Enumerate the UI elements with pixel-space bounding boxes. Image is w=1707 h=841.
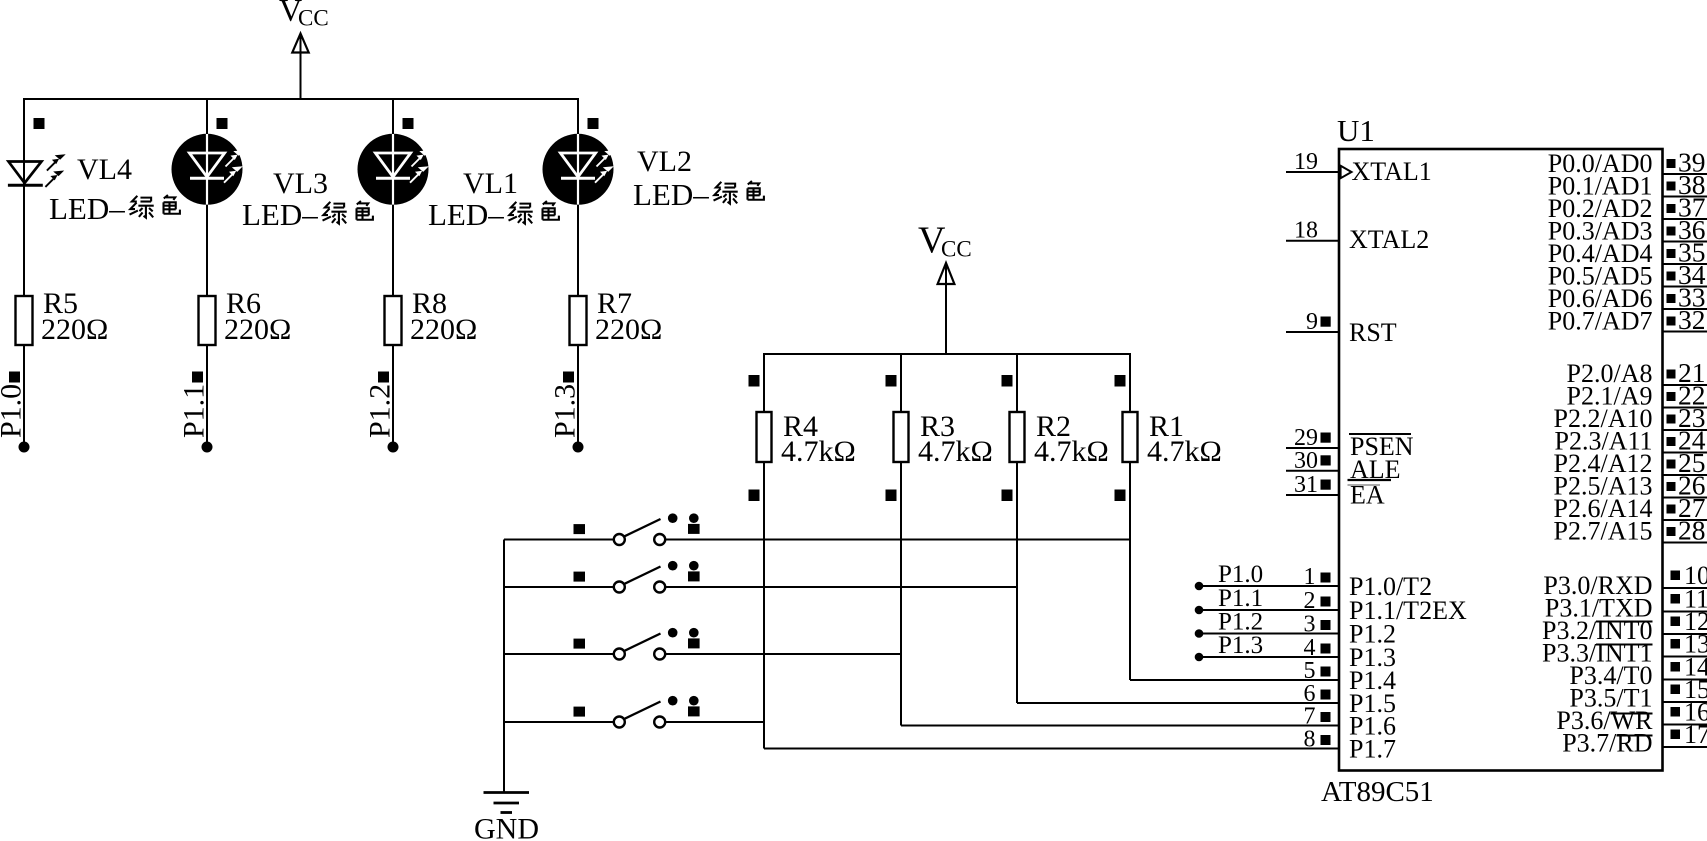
svg-text:4.7kΩ: 4.7kΩ	[918, 435, 993, 468]
svg-text:28: 28	[1678, 515, 1706, 546]
svg-text:VL4: VL4	[77, 153, 132, 186]
svg-text:30: 30	[1294, 448, 1318, 474]
svg-text:AT89C51: AT89C51	[1321, 776, 1434, 808]
svg-text:32: 32	[1678, 304, 1706, 335]
svg-text:220Ω: 220Ω	[410, 313, 477, 346]
svg-text:P3.7/RD: P3.7/RD	[1562, 729, 1652, 758]
svg-text:4.7kΩ: 4.7kΩ	[1147, 435, 1222, 468]
svg-text:CC: CC	[298, 6, 329, 31]
svg-text:17: 17	[1684, 720, 1707, 749]
svg-text:U1: U1	[1337, 113, 1375, 148]
svg-text:GND: GND	[474, 813, 539, 841]
svg-text:220Ω: 220Ω	[224, 313, 291, 346]
svg-text:P1.1: P1.1	[178, 384, 211, 438]
svg-text:220Ω: 220Ω	[595, 313, 662, 346]
svg-text:P1.0: P1.0	[0, 384, 28, 438]
svg-text:CC: CC	[941, 237, 972, 262]
svg-text:XTAL2: XTAL2	[1349, 225, 1429, 254]
svg-text:220Ω: 220Ω	[41, 313, 108, 346]
svg-text:XTAL1: XTAL1	[1352, 157, 1432, 186]
svg-text:VL1: VL1	[463, 167, 518, 200]
svg-text:P0.7/AD7: P0.7/AD7	[1548, 307, 1653, 336]
svg-text:18: 18	[1294, 218, 1318, 244]
svg-text:LED–: LED–	[633, 177, 709, 212]
svg-text:4.7kΩ: 4.7kΩ	[781, 435, 856, 468]
svg-text:LED–: LED–	[428, 197, 504, 232]
svg-text:LED–: LED–	[49, 191, 125, 226]
svg-text:P2.7/A15: P2.7/A15	[1554, 517, 1653, 546]
svg-text:19: 19	[1294, 149, 1318, 175]
svg-text:P1.3: P1.3	[549, 384, 582, 438]
svg-text:P1.3: P1.3	[1218, 632, 1263, 659]
svg-text:VL2: VL2	[637, 145, 692, 178]
svg-text:LED–: LED–	[242, 197, 318, 232]
svg-text:P1.0: P1.0	[1218, 561, 1263, 588]
svg-text:RST: RST	[1349, 318, 1397, 347]
svg-text:P1.7: P1.7	[1349, 735, 1396, 764]
svg-text:P1.2: P1.2	[364, 384, 397, 438]
svg-text:31: 31	[1294, 472, 1318, 498]
svg-text:VL3: VL3	[273, 167, 328, 200]
svg-text:9: 9	[1306, 309, 1318, 335]
svg-text:EA: EA	[1350, 481, 1385, 510]
svg-text:4.7kΩ: 4.7kΩ	[1034, 435, 1109, 468]
svg-text:8: 8	[1304, 727, 1316, 753]
